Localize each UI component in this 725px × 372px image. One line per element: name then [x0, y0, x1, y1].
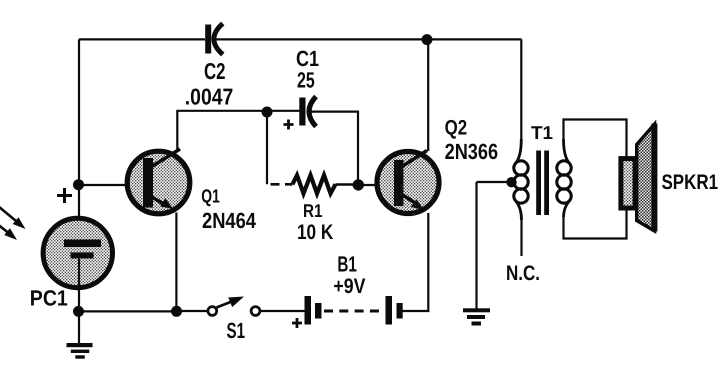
svg-text:+9V: +9V — [333, 275, 365, 298]
svg-text:R1: R1 — [303, 200, 323, 221]
secondary winding — [564, 139, 570, 163]
transistor Q1 — [127, 149, 190, 214]
node junction Q1 base / PC1 — [73, 179, 84, 190]
svg-text:2N464: 2N464 — [202, 208, 257, 233]
svg-text:Q1: Q1 — [201, 187, 220, 208]
transistor Q2 — [377, 151, 439, 214]
wire battery left lead — [261, 310, 305, 312]
svg-text:SPKR1: SPKR1 — [662, 171, 719, 194]
wire Q2 emitter drop — [402, 213, 428, 311]
svg-text:C2: C2 — [204, 58, 226, 84]
svg-text:.0047: .0047 — [185, 84, 234, 110]
wire T1 N.C. tail — [520, 218, 522, 256]
capacitor C1 — [296, 46, 319, 127]
wire C1 right to Q2 base corner — [310, 112, 359, 180]
photocell PC1 — [30, 218, 113, 310]
wire Q1 base lead — [79, 184, 144, 186]
wire top bus left segment — [79, 38, 205, 40]
wire secondary top loop — [564, 120, 627, 159]
primary winding — [516, 139, 521, 163]
light arrow lower — [0, 223, 17, 240]
node junction Q1 emitter / bottom rail — [171, 306, 182, 317]
wire PC1 internal/lower rail — [78, 259, 80, 312]
wire Q2 base lead — [358, 184, 395, 186]
svg-text:PC1: PC1 — [30, 286, 68, 311]
node junction Q2 base — [353, 179, 364, 190]
svg-text:B1: B1 — [337, 252, 357, 277]
svg-text:T1: T1 — [531, 122, 553, 143]
wire T1 tap to ground — [477, 182, 512, 309]
polarity plus C1 — [284, 120, 294, 130]
node junction top (Q2 collector) — [422, 34, 433, 45]
node junction PC1 / bottom rail — [73, 306, 84, 317]
resistor R1 — [293, 175, 354, 244]
svg-text:2N366: 2N366 — [445, 139, 499, 164]
svg-text:25: 25 — [297, 68, 315, 93]
node junction C1/R1 left — [262, 107, 273, 118]
wire dashed R1 left lead — [271, 183, 293, 186]
wire left rail — [78, 39, 80, 240]
svg-text:10 K: 10 K — [297, 221, 333, 244]
wire top bus drop to T1 — [520, 39, 522, 141]
wire C1/R1 loop left branch — [266, 114, 268, 184]
wire Q1 collector riser — [176, 111, 178, 150]
node junction T1 primary tap — [506, 177, 516, 187]
polarity plus PC1 — [57, 188, 72, 203]
svg-text:Q2: Q2 — [445, 117, 468, 140]
transformer T1 — [514, 122, 571, 220]
light arrow upper — [0, 206, 26, 229]
ground T1 — [463, 308, 490, 325]
wire S1 left lead — [181, 310, 207, 312]
polarity plus B1 — [292, 318, 302, 328]
switch S1 — [208, 297, 260, 344]
battery B1 — [305, 252, 403, 325]
svg-text:N.C.: N.C. — [506, 262, 540, 285]
wire Q2 collector riser — [427, 40, 429, 151]
ground PC1 — [67, 312, 93, 359]
wire secondary bottom loop — [564, 210, 627, 239]
wire bottom rail left — [79, 310, 176, 312]
svg-text:S1: S1 — [227, 318, 246, 343]
core — [536, 151, 541, 216]
wire feedback (Q1 collector to C1) — [176, 110, 299, 112]
capacitor C2 — [185, 24, 234, 110]
wire top bus right segment — [216, 38, 522, 40]
speaker SPKR1 — [621, 124, 718, 232]
wire Q1 emitter drop — [175, 213, 177, 312]
